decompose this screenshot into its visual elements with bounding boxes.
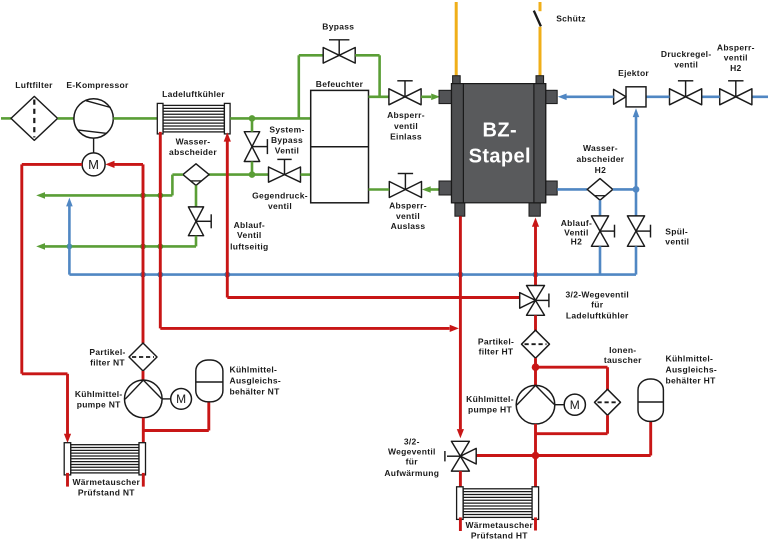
Ejektor ejector E1 xyxy=(614,87,646,107)
valve Spuelventil V10 xyxy=(627,216,650,246)
svg-text:für: für xyxy=(406,457,419,467)
svg-text:M: M xyxy=(88,157,99,172)
svg-text:abscheider: abscheider xyxy=(576,154,624,164)
arrow blue into stack H2 inlet xyxy=(558,94,567,101)
wire blue ablauf drop xyxy=(599,246,602,274)
wire red ion exchanger down xyxy=(606,415,609,433)
svg-text:Spül-: Spül- xyxy=(665,227,688,237)
wire blue separator to junction xyxy=(613,188,636,191)
wire red header to HX HT right xyxy=(534,456,537,489)
svg-text:behälter NT: behälter NT xyxy=(230,387,281,397)
svg-text:Absperr-: Absperr- xyxy=(387,110,425,120)
wire pump NT to motor link xyxy=(162,398,171,400)
label Druckregelventil xyxy=(661,49,712,69)
label Gegendruckventil xyxy=(252,191,308,211)
wire red intercooler left drop xyxy=(159,132,162,329)
svg-text:Partikel-: Partikel- xyxy=(478,336,514,346)
svg-text:Wasser-: Wasser- xyxy=(583,143,618,153)
svg-text:tauscher: tauscher xyxy=(604,355,642,365)
wire green bypass top right xyxy=(355,54,379,57)
label 3-2-Wegeventil Aufwaermung xyxy=(384,436,439,478)
label Luftfilter xyxy=(15,80,53,90)
svg-text:Luftfilter: Luftfilter xyxy=(15,80,53,90)
wire red bottom jog xyxy=(22,372,68,375)
arrow green return 2 exit xyxy=(36,243,45,250)
valve Absperrventil Einlass V5 xyxy=(389,81,421,105)
wire orange cathode lead xyxy=(455,2,458,76)
label Bypass xyxy=(322,22,354,32)
svg-text:für: für xyxy=(591,300,604,310)
label Waermetauscher NT xyxy=(72,477,140,497)
arrow green return 1 exit xyxy=(36,192,45,199)
wire green separator exit left xyxy=(172,173,183,176)
wire green drain valve drop xyxy=(195,236,198,247)
wire green separator drain xyxy=(195,185,198,207)
arrow blue up to return line xyxy=(66,198,73,207)
wire red filter HT to junction xyxy=(534,358,537,367)
svg-text:Kühlmittel-: Kühlmittel- xyxy=(75,389,123,399)
label Ejektor xyxy=(618,68,649,78)
svg-text:Bypass: Bypass xyxy=(271,135,303,145)
Partikelfilter HT filter F3 xyxy=(522,330,550,358)
wire red ion exchanger return xyxy=(536,432,608,435)
wire blue bottom header xyxy=(69,273,636,276)
svg-text:luftseitig: luftseitig xyxy=(230,242,268,252)
svg-text:behälter HT: behälter HT xyxy=(666,375,717,385)
label Schuetz xyxy=(556,14,586,24)
pump Kuehlmittelpumpe HT P3 xyxy=(516,385,555,424)
svg-text:ventil: ventil xyxy=(724,53,748,63)
wire blue junction to spuelventil xyxy=(635,189,638,216)
wire red pump HT down xyxy=(534,424,537,456)
svg-text:M: M xyxy=(176,392,186,406)
Waermetauscher Pruefstand NT HX2 xyxy=(64,443,145,475)
wire compressor to motor xyxy=(93,138,95,153)
label System-Bypass Ventil xyxy=(269,125,304,156)
svg-text:M: M xyxy=(570,398,580,412)
motor M compressor drive xyxy=(82,153,105,176)
label Partikelfilter NT xyxy=(89,347,125,367)
svg-text:Schütz: Schütz xyxy=(556,14,586,24)
label BZ-Stapel xyxy=(469,120,531,168)
wire red stack bottom left drop xyxy=(459,216,462,429)
motor M pump HT drive xyxy=(564,394,585,415)
wire blue H2 supply right xyxy=(752,96,768,99)
svg-text:3/2-: 3/2- xyxy=(404,436,420,446)
label Ausgleichsbehaelter HT xyxy=(666,353,717,385)
svg-text:Ablauf-: Ablauf- xyxy=(234,220,265,230)
wire blue separator drain xyxy=(599,200,602,216)
svg-text:Ejektor: Ejektor xyxy=(618,68,649,78)
label Absperrventil Einlass xyxy=(387,110,425,142)
wire green stack outlet to valve xyxy=(431,188,441,191)
valve 3-2-Wegeventil fuer Ladeluftkuehler V11 xyxy=(520,286,549,316)
wire blue stack H2 out to separator xyxy=(557,188,587,191)
svg-text:Absperr-: Absperr- xyxy=(717,43,755,53)
svg-text:Absperr-: Absperr- xyxy=(389,201,427,211)
svg-text:Befeuchter: Befeuchter xyxy=(316,79,364,89)
node crossing blue x460 xyxy=(458,272,464,278)
label Partikelfilter HT xyxy=(478,336,514,356)
node green junction system bypass top xyxy=(249,115,256,122)
wire red to 3-2 valve LLK xyxy=(227,296,519,299)
svg-text:ventil: ventil xyxy=(396,211,420,221)
svg-text:Ladeluftkühler: Ladeluftkühler xyxy=(566,311,629,321)
wire green valve to humidifier lower xyxy=(301,173,311,176)
wire red HX HT right stub below xyxy=(534,517,537,530)
arrow red into HT riser xyxy=(450,325,459,332)
arrow red down into HX NT xyxy=(64,434,71,443)
wire red pump NT down xyxy=(142,418,145,445)
Ionentauscher ion exchanger F4 xyxy=(595,389,621,415)
node crossing blue x535 xyxy=(533,272,539,278)
wire red ion exchanger drop xyxy=(606,367,609,390)
node crossing return2 blue riser xyxy=(67,244,73,250)
wire green humidifier to inlet valve xyxy=(369,96,390,99)
svg-text:Bypass: Bypass xyxy=(322,22,354,32)
wire green outlet valve to humidifier xyxy=(369,188,390,191)
arrow red up into stack xyxy=(532,218,539,227)
wire blue ejector to stack xyxy=(567,96,614,99)
svg-text:Ventil: Ventil xyxy=(237,230,261,240)
wire orange anode lead upper xyxy=(539,2,542,11)
svg-text:filter NT: filter NT xyxy=(90,357,125,367)
pump Kuehlmittelpumpe NT P2 xyxy=(125,380,163,418)
arrow green into stack inlet xyxy=(431,94,440,101)
node crossing blue x227 xyxy=(224,272,230,278)
wire green bypass right drop xyxy=(378,55,381,97)
svg-text:Wasser-: Wasser- xyxy=(176,137,211,147)
wire red junction to ion exchanger xyxy=(536,366,608,369)
wire red junction to pump HT xyxy=(534,367,537,386)
wire red HX NT right stub below xyxy=(142,473,145,487)
label Spuelventil xyxy=(665,227,689,247)
svg-text:filter HT: filter HT xyxy=(479,347,514,357)
wire blue spuel drop xyxy=(635,246,638,274)
wire green return line 1 xyxy=(45,194,173,197)
label Ladeluftkuehler xyxy=(162,89,225,99)
svg-text:Prüfstand HT: Prüfstand HT xyxy=(471,531,528,541)
valve Druckregelventil V8 xyxy=(670,81,702,105)
svg-text:pumpe HT: pumpe HT xyxy=(468,405,512,415)
Befeuchter humidifier B1 xyxy=(311,90,369,202)
label Waermetauscher HT xyxy=(465,520,533,540)
label Kuehlmittelpumpe HT xyxy=(466,394,514,415)
svg-text:ventil: ventil xyxy=(394,121,418,131)
wire green separator to junction xyxy=(209,173,269,176)
wire red bottom header HT xyxy=(476,454,651,457)
svg-text:Gegendruck-: Gegendruck- xyxy=(252,191,308,201)
svg-text:Ventil: Ventil xyxy=(275,146,299,156)
valve Gegendruckventil V3 xyxy=(269,159,301,182)
label 3-2-Wegeventil LLK xyxy=(566,289,630,320)
arrow red into motor xyxy=(105,161,114,168)
svg-text:ventil: ventil xyxy=(268,201,292,211)
node blue junction recirc xyxy=(633,186,640,193)
wire red left downcomer xyxy=(20,164,23,373)
label Ionentauscher xyxy=(604,345,642,365)
svg-text:Kühlmittel-: Kühlmittel- xyxy=(466,394,514,404)
svg-text:Einlass: Einlass xyxy=(390,132,422,142)
wire green system bypass stub top xyxy=(251,118,254,131)
BZ-Stapel fuel cell stack U1 xyxy=(439,76,557,217)
wire green filter to compressor xyxy=(58,117,74,120)
valve Ablauf-Ventil luftseitig V4 xyxy=(188,207,211,236)
svg-text:3/2-Wegeventil: 3/2-Wegeventil xyxy=(566,289,630,299)
label E-Kompressor xyxy=(66,80,129,90)
svg-text:Ladeluftkühler: Ladeluftkühler xyxy=(162,89,225,99)
svg-text:Partikel-: Partikel- xyxy=(89,347,125,357)
svg-text:Prüfstand NT: Prüfstand NT xyxy=(78,488,135,498)
wire red valve to filter HT xyxy=(534,315,537,343)
Ladeluftkuehler intercooler HX1 xyxy=(157,103,230,133)
svg-text:ventil: ventil xyxy=(665,236,689,246)
arrow green into outlet valve xyxy=(422,186,431,193)
label Ablauf-Ventil H2 xyxy=(561,218,592,247)
wire pump HT to motor link xyxy=(555,404,564,406)
wire green return line 2 xyxy=(45,245,196,248)
valve Absperrventil Auslass V6 xyxy=(389,174,421,198)
wire red stack bottom right drop xyxy=(534,226,537,285)
label Wasserabscheider H2 xyxy=(576,143,624,175)
wire orange anode lead lower xyxy=(539,27,542,76)
svg-text:System-: System- xyxy=(269,125,304,135)
wire green air inlet stub xyxy=(1,117,11,120)
svg-text:Druckregel-: Druckregel- xyxy=(661,49,712,59)
node crossing blue x143 xyxy=(140,272,146,278)
wire green system bypass stub bottom xyxy=(251,162,254,175)
Wasserabscheider H2 separator S2 xyxy=(587,179,613,201)
label Ausgleichsbehaelter NT xyxy=(230,365,281,397)
svg-text:Ionen-: Ionen- xyxy=(609,345,636,355)
arrow red up into intercooler xyxy=(224,132,231,141)
wire red tank HT riser xyxy=(649,421,652,456)
Luftfilter air filter F1 xyxy=(11,96,58,140)
E-Kompressor compressor P1 xyxy=(74,99,113,138)
wire red tee to tank NT xyxy=(143,429,209,432)
svg-text:abscheider: abscheider xyxy=(169,147,217,157)
node red junction bottom header xyxy=(532,452,540,460)
svg-text:BZ-: BZ- xyxy=(483,120,518,142)
wire blue between H2 valves xyxy=(702,96,720,99)
wire blue ejector suction xyxy=(635,117,638,189)
arrow red down into warmup valve xyxy=(457,429,464,438)
svg-text:E-Kompressor: E-Kompressor xyxy=(66,80,129,90)
Waermetauscher Pruefstand HT HX3 xyxy=(457,487,539,520)
tank Kuehlmittel-Ausgleichsbehaelter HT T2 xyxy=(638,379,663,421)
wire red NT downcomer xyxy=(142,164,145,343)
wire red HX NT left stub below xyxy=(66,473,69,487)
wire green bypass top left xyxy=(299,54,323,57)
wire red drop to HX NT left xyxy=(66,374,69,434)
wire red filter to pump NT xyxy=(142,371,145,381)
Wasserabscheider air separator S1 xyxy=(183,164,209,186)
wire red HX HT left stub below xyxy=(459,517,462,531)
svg-text:pumpe NT: pumpe NT xyxy=(77,399,121,409)
valve Absperrventil H2 V7 xyxy=(720,81,752,105)
node crossing return1 x160 xyxy=(157,193,163,199)
wire red motor loop right xyxy=(114,163,143,166)
node red junction above pump HT xyxy=(532,363,540,371)
wire red to HT warmup feed xyxy=(160,327,449,330)
valve 3-2-Wegeventil fuer Aufwaermung V12 xyxy=(445,441,476,471)
label Absperrventil Auslass xyxy=(389,201,427,232)
label Befeuchter xyxy=(316,79,364,89)
svg-text:Ausgleichs-: Ausgleichs- xyxy=(666,364,717,374)
valve System-Bypass Ventil V2 xyxy=(244,132,267,162)
svg-text:H2: H2 xyxy=(595,165,606,175)
svg-text:Wärmetauscher: Wärmetauscher xyxy=(72,477,140,487)
wire red motor loop left xyxy=(22,163,82,166)
svg-text:Wegeventil: Wegeventil xyxy=(388,447,436,457)
switch Schuetz contactor xyxy=(534,11,541,27)
svg-text:Ablauf-: Ablauf- xyxy=(561,218,592,228)
svg-text:H2: H2 xyxy=(730,63,741,73)
wire red intercooler right drop xyxy=(226,141,229,297)
tank Kuehlmittel-Ausgleichsbehaelter NT T1 xyxy=(196,360,223,402)
wire green drop to return line xyxy=(171,175,174,196)
arrow blue up into ejector xyxy=(633,108,640,117)
svg-text:Auslass: Auslass xyxy=(391,221,426,231)
wire green bypass left riser xyxy=(297,55,300,118)
label Ablauf-Ventil luftseitig xyxy=(230,220,268,252)
svg-text:H2: H2 xyxy=(571,236,582,246)
wire green compressor to intercooler xyxy=(113,117,157,120)
wire green intercooler to humidifier xyxy=(230,117,311,120)
svg-text:Aufwärmung: Aufwärmung xyxy=(384,468,439,478)
svg-text:Wärmetauscher: Wärmetauscher xyxy=(465,520,533,530)
node crossing return2 x160 xyxy=(157,244,163,250)
node crossing return2 x143 xyxy=(140,244,146,250)
svg-text:Stapel: Stapel xyxy=(469,146,531,168)
svg-text:Ausgleichs-: Ausgleichs- xyxy=(230,376,281,386)
label Absperrventil H2 xyxy=(717,43,755,73)
label Wasserabscheider air xyxy=(169,137,217,158)
node crossing blue x160 xyxy=(157,272,163,278)
wire blue left riser xyxy=(68,206,71,275)
label Kuehlmittelpumpe NT xyxy=(75,389,123,410)
svg-text:Kühlmittel-: Kühlmittel- xyxy=(666,353,714,363)
wire red warmup valve to HX HT xyxy=(459,471,462,489)
node green junction gegendruck line xyxy=(249,171,256,178)
Partikelfilter NT filter F2 xyxy=(129,343,157,371)
motor M pump NT drive xyxy=(171,389,192,410)
node crossing return1 x143 xyxy=(140,193,146,199)
svg-text:Kühlmittel-: Kühlmittel- xyxy=(230,365,278,375)
valve Ablauf-Ventil H2 V9 xyxy=(591,216,614,246)
svg-text:ventil: ventil xyxy=(674,59,698,69)
wire blue valve to ejector xyxy=(646,96,670,99)
wire red tank NT riser xyxy=(207,402,210,431)
valve Bypass V1 xyxy=(323,40,355,63)
wire green inlet valve to stack xyxy=(421,96,431,99)
